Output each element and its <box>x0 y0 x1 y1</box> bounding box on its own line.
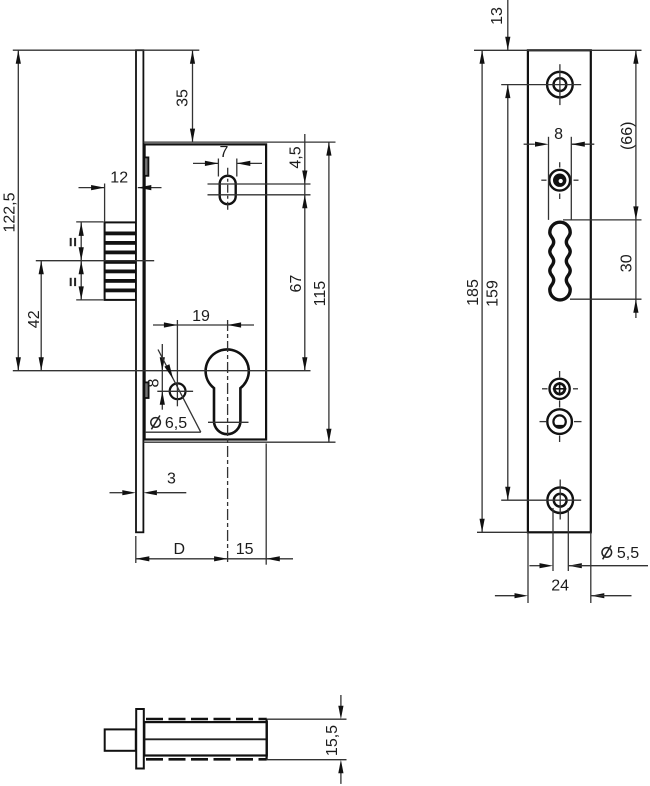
pin hole horizontal centerline <box>157 390 193 392</box>
dimension 3 faceplate thickness <box>110 470 187 495</box>
svg-text:24: 24 <box>551 577 569 594</box>
svg-text:122,5: 122,5 <box>2 192 19 232</box>
equal marks II lower <box>71 278 75 286</box>
slot top reference line <box>563 219 642 221</box>
svg-text:15: 15 <box>236 541 254 558</box>
bottom view faceplate bar <box>136 709 144 769</box>
diameter symbol 5,5 <box>602 546 612 560</box>
svg-text:67: 67 <box>288 275 305 293</box>
faceplate top extension line <box>474 49 642 51</box>
lock case outline <box>145 144 267 439</box>
pin hole diameter 6,5 <box>170 383 186 399</box>
svg-text:185: 185 <box>465 279 482 306</box>
bottom view latch head <box>105 729 136 750</box>
dimension 8 pin hole offset <box>145 344 164 410</box>
equal span arrows latch <box>76 222 103 300</box>
bottom view lock case <box>144 722 266 755</box>
svg-text:30: 30 <box>619 254 636 272</box>
hole 3 centerline dashes <box>542 388 578 390</box>
faceplate bottom extension line <box>477 531 528 533</box>
countersunk hole 3 with cross <box>550 379 570 399</box>
slot bottom reference line <box>570 298 642 300</box>
top hole centerlines <box>501 64 581 105</box>
dimension 159 <box>485 85 511 501</box>
hole 4 centerlines <box>540 371 582 442</box>
bottom view rivet tab dashes bottom <box>146 758 267 761</box>
follower hole oval <box>220 176 236 204</box>
case top extension line <box>143 141 335 143</box>
case bottom extension line <box>143 441 335 443</box>
svg-text:8: 8 <box>554 126 563 143</box>
diameter symbol 6,5 <box>151 416 161 430</box>
dimension 4,5 <box>287 134 307 371</box>
svg-text:15,5: 15,5 <box>324 725 341 756</box>
svg-text:8: 8 <box>145 378 162 387</box>
cylinder centerline horizontal <box>13 370 311 372</box>
cylinder lower lobe centerline <box>208 421 249 423</box>
fixing pin upper <box>144 157 148 175</box>
hub upper line 4,5 ref <box>208 183 311 185</box>
dimension 8 slot width <box>524 126 595 220</box>
euro profile cylinder hole <box>206 349 249 434</box>
bottom view case end cap <box>266 719 268 759</box>
svg-text:13: 13 <box>489 7 506 25</box>
dimension 35 <box>175 50 196 142</box>
svg-text:19: 19 <box>192 308 210 325</box>
dimension 66 <box>619 50 638 318</box>
svg-text:4,5: 4,5 <box>287 146 304 168</box>
svg-text:42: 42 <box>26 310 43 328</box>
leader diameter 6,5 <box>145 350 201 433</box>
countersunk hole 2 <box>549 170 570 191</box>
dimension 67 <box>288 275 307 371</box>
dimension 12 <box>79 170 162 223</box>
svg-text:(66): (66) <box>619 122 636 150</box>
dimension 13 <box>489 0 510 50</box>
dimension 115 <box>312 142 331 442</box>
bottom view case mid line <box>144 738 266 740</box>
dimension diameter 5,5 <box>529 508 648 571</box>
dimension 19 <box>153 308 254 407</box>
dimension 185 <box>465 50 485 532</box>
cylinder vertical centerline <box>227 320 229 562</box>
svg-text:115: 115 <box>312 281 329 307</box>
follower vertical centerline <box>227 168 229 212</box>
dimension D and 15 backset <box>136 444 293 565</box>
dimension 42 <box>26 261 44 371</box>
dimension 122,5 <box>2 50 21 371</box>
top reference line <box>13 49 200 51</box>
svg-text:5,5: 5,5 <box>617 545 639 562</box>
svg-text:3: 3 <box>167 470 176 487</box>
dimension 30 <box>619 254 639 312</box>
latch bolt with serrations <box>105 222 136 300</box>
hole 4 <box>547 409 572 434</box>
faceplate edge-on (left view) <box>136 50 143 532</box>
bottom view rivet tab dashes top <box>146 718 267 721</box>
hub lower line 4,5 ref <box>208 194 311 196</box>
fixing pin lower <box>144 382 148 398</box>
faceplate front view outline <box>528 50 591 532</box>
svg-text:D: D <box>174 541 186 558</box>
svg-text:6,5: 6,5 <box>165 415 187 432</box>
svg-text:35: 35 <box>175 89 192 107</box>
hole 2 centerlines <box>541 162 578 199</box>
latch centerline <box>36 260 154 262</box>
dimension 24 <box>495 532 632 603</box>
svg-text:7: 7 <box>220 144 229 161</box>
screw hole bottom <box>547 487 573 513</box>
screw hole top <box>547 72 573 98</box>
svg-text:12: 12 <box>110 170 128 187</box>
wavy anti-friction slot <box>550 222 570 300</box>
dimension 15,5 <box>267 695 347 784</box>
svg-text:159: 159 <box>485 280 502 307</box>
bottom hole centerlines <box>501 480 581 520</box>
dimension 7 <box>193 144 262 177</box>
equal marks II upper <box>71 238 75 246</box>
